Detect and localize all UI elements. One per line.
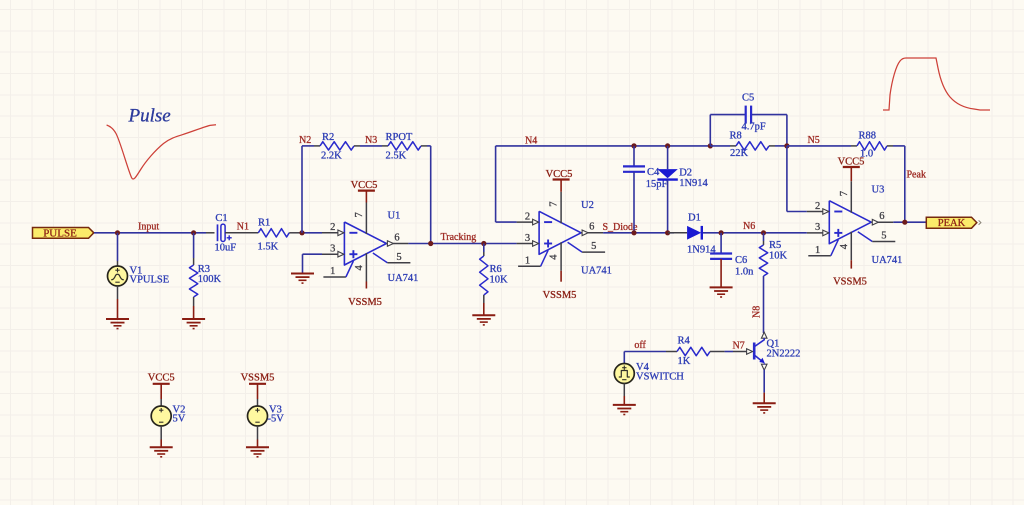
op-amp U1 triangle (344, 222, 386, 265)
svg-text:N4: N4 (525, 136, 537, 147)
svg-text:VCC5: VCC5 (351, 180, 378, 191)
svg-text:N6: N6 (743, 221, 755, 232)
svg-text:UA741: UA741 (581, 266, 612, 277)
svg-text:4: 4 (549, 254, 560, 260)
junction feedback at output (428, 241, 433, 246)
capacitor C4 (623, 165, 645, 167)
svg-text:4: 4 (839, 243, 850, 249)
wire: N4 rail right (496, 145, 711, 147)
svg-text:2: 2 (330, 222, 335, 233)
svg-text:2.5K: 2.5K (386, 151, 407, 162)
U1 pin 5 (offset null) (373, 253, 388, 263)
port PEAK (926, 217, 977, 228)
svg-text:VSSM5: VSSM5 (241, 373, 275, 384)
wire: V3 to ground (257, 426, 259, 440)
junction at R3 (191, 230, 196, 235)
svg-text:100K: 100K (198, 274, 222, 285)
wire: rail down to C4 (633, 146, 635, 166)
resistor R2 (320, 142, 354, 150)
wire: U1 output to U2 pin3 (408, 243, 430, 245)
Q1 emitter lead with arrow (755, 355, 763, 362)
svg-text:PULSE: PULSE (43, 227, 77, 239)
svg-text:2.2K: 2.2K (321, 151, 342, 162)
svg-text:6: 6 (589, 222, 594, 233)
source V3 (248, 406, 268, 426)
wire: C5 branch top right (752, 114, 787, 116)
svg-text:C4: C4 (647, 167, 660, 178)
junction S_Diode at D2 (665, 230, 670, 235)
junction N6 at C6 (719, 230, 724, 235)
wire: V4 up and right to R4 (623, 352, 625, 364)
capacitor C1 (polarized) (217, 224, 219, 241)
junction N4 at D2 (665, 143, 670, 148)
svg-text:VSSM5: VSSM5 (833, 277, 867, 288)
svg-text:N7: N7 (733, 341, 745, 352)
junction S_Diode at C4 (631, 230, 636, 235)
Q1 base bar (753, 343, 756, 360)
U1 pin 4 (V-) (365, 253, 367, 282)
wire: Peak vertical down (904, 146, 906, 222)
diode D1 (pointing right) (687, 226, 701, 240)
svg-text:PEAK: PEAK (938, 218, 966, 229)
U3 pin 4 supply wire (850, 260, 852, 268)
wire: R5 down to Q1 collector (net N8) (763, 276, 765, 333)
U2 pin 7 (V+) (560, 192, 562, 224)
svg-text:7: 7 (354, 212, 365, 217)
svg-text:R88: R88 (859, 130, 877, 141)
svg-text:3: 3 (330, 244, 335, 255)
svg-text:VCC5: VCC5 (148, 373, 175, 384)
svg-text:1.5K: 1.5K (258, 242, 279, 253)
svg-text:D1: D1 (688, 213, 701, 224)
svg-text:4.7pF: 4.7pF (742, 122, 766, 133)
ground under V4 (613, 404, 636, 406)
svg-text:5: 5 (881, 231, 886, 242)
wire: N6 down to C6 (720, 233, 722, 254)
svg-text:Peak: Peak (907, 170, 926, 181)
svg-text:N3: N3 (365, 135, 377, 146)
U3 pin 1 (offset null) (808, 255, 831, 257)
wire: junction down to V1 (117, 233, 119, 261)
svg-text:6: 6 (394, 232, 399, 243)
svg-text:C1: C1 (215, 213, 227, 224)
wire: U2 output to D1 (603, 232, 674, 234)
svg-text:7: 7 (549, 202, 560, 207)
wire: VCC5 to V2 (160, 384, 162, 399)
U2 pin 5 (offset null) (568, 242, 583, 252)
wire: N6 down to R5 (763, 233, 765, 241)
wire: R3 to ground (193, 297, 195, 306)
ground under V2 (150, 446, 173, 448)
U3 pin 4 (V-) (850, 232, 852, 261)
U1 pin 7 (V+) (365, 203, 367, 235)
ground under R6 (472, 314, 495, 316)
Q1 base pin (733, 351, 747, 353)
op-amp U3 triangle (829, 201, 871, 244)
wire: rail down to D2 (667, 146, 669, 169)
junction at V1 (115, 230, 120, 235)
svg-text:C5: C5 (742, 93, 754, 104)
svg-text:C6: C6 (735, 255, 747, 266)
U2 pin 4 supply wire (560, 271, 562, 282)
wire: R88 to corner (887, 145, 893, 147)
svg-text:1: 1 (330, 266, 335, 277)
U3 pin 7 (V+) (850, 181, 852, 213)
svg-text:RPOT: RPOT (386, 132, 413, 143)
svg-text:UA741: UA741 (872, 255, 903, 266)
wire: Tracking down to R6 (483, 244, 485, 253)
svg-text:2: 2 (815, 201, 820, 212)
Q1 emitter pin (761, 364, 767, 370)
U2 pin 6 (output) (581, 232, 603, 234)
svg-text:5V: 5V (173, 414, 186, 425)
svg-text:U1: U1 (388, 210, 401, 221)
U1 pin 6 (output) (386, 243, 408, 245)
capacitor C5 (745, 106, 747, 124)
svg-text:10K: 10K (769, 251, 788, 262)
svg-text:6: 6 (879, 211, 884, 222)
svg-text:2N2222: 2N2222 (767, 348, 801, 359)
U3 pin 7 supply wire (850, 167, 852, 181)
svg-text:VSWITCH: VSWITCH (636, 371, 684, 382)
svg-text:N5: N5 (808, 135, 820, 146)
svg-text:4: 4 (354, 265, 365, 271)
wire: N5 down to U3 pin2 (786, 146, 788, 212)
wire: D2 down to S_Diode line (667, 180, 669, 233)
wire: N2 rail to R2 (302, 145, 314, 147)
svg-text:U3: U3 (872, 185, 885, 196)
svg-text:R4: R4 (678, 336, 691, 347)
wire: N2 vertical up (301, 146, 303, 233)
wire: RPOT to right vertical (421, 145, 427, 147)
svg-text:7: 7 (839, 191, 850, 196)
wire: C5 branch top left (710, 114, 745, 116)
svg-text:UA741: UA741 (388, 273, 419, 284)
junction N6 at R5 (761, 230, 766, 235)
V4 step glyph (619, 371, 630, 378)
wire: V4 to ground (623, 384, 625, 397)
wire: C5 branch left vertical (709, 115, 711, 146)
wire: V2 to ground (160, 426, 162, 440)
svg-text:1: 1 (815, 245, 820, 256)
svg-text:U2: U2 (581, 200, 594, 211)
wire: feedback right vertical down (430, 146, 432, 244)
wire: N4 vertical up (495, 146, 497, 222)
wire: C6 to ground (720, 259, 722, 287)
svg-text:10uF: 10uF (215, 242, 237, 253)
U2 pin 1 (offset null) (518, 265, 541, 267)
U3 pin 3 (non-inverting input) (807, 232, 829, 234)
svg-text:R8: R8 (730, 130, 742, 141)
U1 pin 2 (inverting input) (322, 232, 344, 234)
svg-text:Input: Input (138, 222, 159, 233)
ground under V1 (106, 318, 129, 320)
source V4 (614, 364, 634, 384)
junction N4 at C4 (631, 143, 636, 148)
svg-text:off: off (634, 340, 646, 351)
ground under R3 (182, 318, 205, 320)
svg-text:VPULSE: VPULSE (130, 275, 170, 286)
U1 pin 1 (offset null) (323, 276, 346, 278)
V1 pulse glyph (111, 274, 124, 280)
svg-text:3: 3 (525, 233, 530, 244)
svg-text:1.0n: 1.0n (735, 266, 754, 277)
port PULSE (33, 228, 94, 239)
ground at U1 pin3 (291, 273, 314, 275)
wire: rail to R8 (710, 145, 730, 147)
wire: U1 pin3 to ground (303, 253, 323, 255)
wire: R2 to RPOT (354, 145, 360, 147)
peak waveform sketch (883, 58, 990, 110)
wire: junction down to R3 (193, 233, 195, 258)
svg-text:2: 2 (525, 211, 530, 222)
U2 pin 7 supply wire (560, 180, 562, 192)
U1 pin 7 supply wire (365, 191, 367, 203)
svg-text:10K: 10K (490, 274, 509, 285)
capacitor C6 (710, 252, 732, 254)
U1 pin 3 (non-inverting input) (322, 253, 344, 255)
wire: R6 to ground (483, 295, 485, 303)
resistor R88 (857, 142, 887, 150)
svg-text:VCC5: VCC5 (838, 157, 865, 168)
junction rail at C5 branch (708, 143, 713, 148)
U2 pin 3 (non-inverting input) (517, 243, 539, 245)
svg-text:VSSM5: VSSM5 (543, 290, 577, 301)
svg-text:VSSM5: VSSM5 (348, 297, 382, 308)
source V2 (151, 406, 171, 426)
wire: C1 to R1 (225, 232, 258, 234)
svg-text:Tracking: Tracking (441, 232, 477, 243)
wire: C5 branch right vertical (786, 115, 788, 146)
U1 pin 4 supply wire (365, 282, 367, 289)
wire: D1 left pin (668, 232, 687, 234)
resistor R1 (258, 229, 289, 237)
resistor R8 (736, 142, 769, 150)
junction at U3 output (902, 220, 907, 225)
U3 pin 2 (inverting input) (807, 211, 829, 213)
resistor R3 (189, 265, 197, 297)
resistor R5 (759, 245, 767, 276)
wire: R1 to U1 pin2 (289, 232, 302, 234)
wire: VSSM5 to V3 (257, 384, 259, 399)
svg-text:R1: R1 (258, 218, 270, 229)
svg-text:R2: R2 (322, 132, 334, 143)
source V1 (108, 266, 128, 286)
ground under C6 (710, 286, 733, 288)
svg-text:1K: 1K (678, 356, 691, 367)
wire: N5 to R88 (787, 145, 851, 147)
svg-text:22K: 22K (730, 148, 749, 159)
Q1 collector lead (755, 338, 765, 346)
op-amp U2 triangle (539, 211, 581, 254)
wire: U2 pin2 to N4 vertical (496, 221, 517, 223)
resistor R4 (677, 347, 710, 355)
svg-text:N8: N8 (752, 306, 763, 318)
resistor R6 (480, 256, 488, 295)
svg-text:-5V: -5V (268, 414, 285, 425)
ground under V3 (246, 446, 269, 448)
svg-text:N2: N2 (299, 135, 311, 146)
wire: C1 pin stub left (206, 232, 215, 234)
U2 pin 4 (V-) (560, 242, 562, 270)
svg-text:1N914: 1N914 (679, 178, 708, 189)
off-sheet mark after PEAK (979, 220, 981, 224)
svg-text:5: 5 (396, 252, 401, 263)
wire: R4 to Q1 base (710, 351, 725, 353)
junction at R6 (481, 241, 486, 246)
pulse waveform sketch (107, 125, 216, 179)
U2 pin 2 (inverting input) (517, 221, 539, 223)
resistor RPOT (388, 142, 421, 150)
diode D2 (pointing down) (657, 169, 677, 178)
transistor Q1 collector pin (761, 332, 767, 338)
wire: U3 output to PEAK (893, 221, 926, 223)
svg-text:1: 1 (525, 255, 530, 266)
junction N5 (784, 143, 789, 148)
U3 pin 6 (output) (871, 221, 893, 223)
ground under Q1 (753, 402, 776, 404)
C1 plus mark (227, 237, 232, 239)
U3 pin 5 (offset null) (858, 232, 873, 242)
wire: Q1 emitter to ground (763, 370, 765, 393)
wire: V1 to ground (117, 286, 119, 299)
svg-text:3: 3 (815, 222, 820, 233)
junction feedback node N2 (299, 230, 304, 235)
wire: R8 to N5 junction (769, 145, 775, 147)
wire: D1 to U3 pin3 (703, 232, 807, 234)
svg-text:5: 5 (591, 241, 596, 252)
svg-text:N1: N1 (237, 222, 249, 233)
wire: PULSE port to C1 (94, 232, 206, 234)
svg-text:Pulse: Pulse (128, 105, 171, 126)
wire: C4 down to S_Diode line (633, 172, 635, 233)
